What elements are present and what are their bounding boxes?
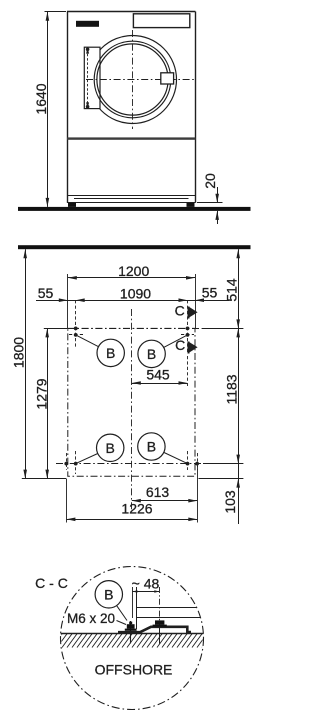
svg-text:OFFSHORE: OFFSHORE bbox=[95, 662, 173, 678]
svg-text:55: 55 bbox=[38, 285, 54, 301]
svg-text:B: B bbox=[104, 586, 113, 602]
svg-text:1183: 1183 bbox=[224, 374, 240, 404]
svg-text:~ 48: ~ 48 bbox=[132, 576, 160, 592]
svg-text:M6 x 20: M6 x 20 bbox=[67, 611, 115, 626]
svg-text:55: 55 bbox=[202, 285, 218, 301]
svg-text:545: 545 bbox=[146, 366, 170, 382]
svg-text:1200: 1200 bbox=[118, 263, 149, 279]
svg-text:1226: 1226 bbox=[121, 501, 152, 517]
svg-text:1640: 1640 bbox=[33, 83, 49, 114]
svg-text:103: 103 bbox=[222, 490, 238, 514]
svg-text:B: B bbox=[147, 346, 156, 362]
svg-text:613: 613 bbox=[146, 484, 170, 500]
svg-text:B: B bbox=[147, 439, 156, 455]
svg-text:C: C bbox=[175, 337, 185, 353]
svg-text:C - C: C - C bbox=[35, 575, 68, 591]
svg-text:C: C bbox=[175, 303, 185, 319]
svg-text:B: B bbox=[106, 440, 115, 456]
svg-text:1279: 1279 bbox=[33, 378, 49, 409]
svg-text:1800: 1800 bbox=[11, 337, 27, 368]
svg-text:B: B bbox=[106, 345, 115, 361]
svg-text:514: 514 bbox=[224, 278, 240, 302]
svg-text:1090: 1090 bbox=[120, 286, 151, 302]
svg-text:20: 20 bbox=[202, 173, 218, 189]
